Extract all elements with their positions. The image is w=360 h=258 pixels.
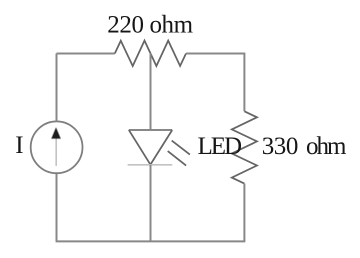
- svg-text:LED: LED: [198, 133, 243, 160]
- wire middle vertical lower: [150, 165, 152, 242]
- LED D1 triangle: [129, 130, 172, 165]
- LED cathode bar: [128, 164, 173, 166]
- wire left vertical upper: [56, 54, 58, 122]
- svg-text:330 ohm: 330 ohm: [262, 133, 347, 160]
- wire middle vertical upper: [150, 53, 152, 130]
- svg-text:220 ohm: 220 ohm: [107, 11, 193, 38]
- wire left vertical lower: [56, 173, 58, 241]
- wire top-right segment: [186, 53, 244, 55]
- current source arrow shaft: [55, 138, 57, 166]
- resistor R1 220 ohm: [115, 41, 186, 66]
- wire bottom: [56, 240, 246, 242]
- LED light ray 2: [168, 151, 186, 166]
- wire top-left segment: [57, 53, 115, 55]
- resistor R2 330 ohm: [232, 111, 257, 183]
- current source arrowhead: [52, 128, 60, 138]
- current source I1 circle: [31, 121, 83, 173]
- wire right vertical lower: [243, 184, 245, 242]
- svg-text:I: I: [15, 132, 23, 159]
- LED light ray 1: [172, 141, 190, 155]
- wire right vertical upper: [243, 53, 245, 112]
